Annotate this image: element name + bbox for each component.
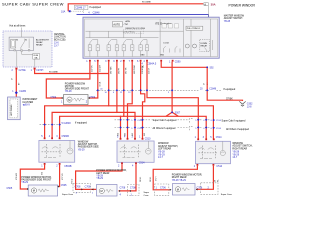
svg-text:10A: 10A [61,10,66,13]
svg-text:C510: C510 [137,128,143,130]
svg-text:A: A [204,2,206,6]
svg-text:M: M [101,189,103,193]
svg-text:518 BK/W: 518 BK/W [142,66,144,74]
svg-text:970 W/R: 970 W/R [16,172,18,180]
svg-text:C505: C505 [7,187,13,190]
svg-text:86: 86 [16,40,18,42]
svg-text:519 GY: 519 GY [149,67,151,74]
svg-text:57: 57 [12,78,14,80]
svg-text:C2280: C2280 [19,91,26,93]
svg-text:Super Cab if equipped: Super Cab if equipped [153,119,177,122]
svg-text:Super Crew: Super Crew [62,193,73,196]
svg-text:If equipped: If equipped [75,121,88,124]
svg-text:57 BK: 57 BK [226,97,233,100]
svg-text:971: 971 [42,172,44,175]
svg-text:S92: S92 [210,67,215,69]
svg-text:960: 960 [125,133,127,136]
svg-text:C584B: C584B [62,135,70,138]
svg-text:YB-29: YB-29 [179,179,186,182]
svg-text:971 Y: 971 Y [156,176,158,181]
svg-text:58 R/L: 58 R/L [140,177,142,182]
svg-text:C514: C514 [216,165,222,168]
svg-text:Hot at all times: Hot at all times [10,25,27,28]
svg-text:515 Y/R: 515 Y/R [92,65,94,72]
svg-text:LOCK: LOCK [164,43,170,45]
svg-text:MASTER WINDOW: MASTER WINDOW [224,14,245,17]
svg-text:Super: Super [144,191,150,194]
svg-text:60-9: 60-9 [25,105,30,107]
svg-text:If equipped: If equipped [90,7,102,9]
svg-text:C584A 5: C584A 5 [147,62,157,65]
svg-text:13-6: 13-6 [54,43,59,45]
svg-text:ADJUST SWITCH: ADJUST SWITCH [224,17,243,20]
svg-text:ACCESSORY: ACCESSORY [36,38,50,41]
svg-text:C708: C708 [120,187,126,190]
svg-text:C514: C514 [139,161,145,164]
svg-text:13-8: 13-8 [247,106,252,108]
svg-text:C2846 17: C2846 17 [75,7,86,10]
svg-text:C584B: C584B [64,165,72,168]
svg-text:AUTO: AUTO [113,24,120,27]
svg-text:C505: C505 [61,184,67,187]
svg-text:YB-28: YB-28 [172,179,179,182]
svg-text:YB-28: YB-28 [65,90,72,93]
svg-text:C2848: C2848 [209,89,216,91]
svg-text:30A: 30A [211,3,216,7]
svg-text:58 R/L: 58 R/L [150,177,152,182]
svg-text:C590: C590 [175,61,181,64]
svg-text:C504: C504 [51,96,57,99]
svg-text:C510: C510 [137,120,143,122]
svg-text:C514: C514 [216,128,222,130]
svg-text:A/DN: A/DN [126,20,131,23]
svg-text:DELAY: DELAY [36,41,43,44]
svg-text:GND: GND [160,55,165,57]
svg-text:BOX (CJB): BOX (CJB) [54,39,66,41]
svg-text:963 T/BK: 963 T/BK [110,66,112,74]
svg-text:961: 961 [118,133,120,136]
svg-text:C708: C708 [85,186,91,189]
svg-text:YB-29: YB-29 [78,148,85,151]
svg-text:13-7: 13-7 [158,156,163,159]
svg-text:M: M [177,188,179,192]
svg-text:C270E: C270E [19,70,26,72]
svg-text:INSTRUMENT: INSTRUMENT [22,99,38,101]
svg-text:JUNCTION: JUNCTION [54,37,66,39]
svg-text:C514: C514 [216,136,222,139]
svg-text:YB-28: YB-28 [224,21,231,23]
svg-text:M: M [33,189,35,193]
svg-text:Super Cab if equipped: Super Cab if equipped [222,119,246,122]
svg-text:SUPER CAB/ SUPER CREW: SUPER CAB/ SUPER CREW [2,1,64,6]
svg-text:All Others if equipped: All Others if equipped [226,128,250,131]
svg-text:85: 85 [25,40,27,42]
svg-text:ACC DELAY: ACC DELAY [10,104,13,116]
svg-text:59 LB: 59 LB [99,81,101,86]
svg-text:971 Y/R: 971 Y/R [62,173,64,180]
svg-text:GND: GND [141,55,146,57]
svg-text:961 T/R: 961 T/R [125,67,127,74]
svg-text:C708: C708 [75,186,81,189]
svg-text:KK LB/BK: KK LB/BK [142,1,152,3]
svg-text:KK LB/BK: KK LB/BK [49,72,59,74]
svg-text:Super Crew: Super Crew [221,193,232,196]
svg-text:972 W: 972 W [72,179,74,184]
svg-text:All Others if equipped: All Others if equipped [153,127,177,130]
svg-text:YB-29: YB-29 [21,181,28,184]
svg-text:G302: G302 [247,103,253,105]
svg-text:13-7: 13-7 [232,156,237,159]
svg-text:M: M [68,98,70,102]
svg-text:C2848: C2848 [93,13,100,15]
svg-text:If equipped: If equipped [223,88,236,91]
svg-text:CLUSTER: CLUSTER [22,102,33,104]
svg-text:S507: S507 [175,112,181,114]
svg-text:RELAY: RELAY [36,44,43,47]
svg-text:POWER WINDOWS: POWER WINDOWS [229,3,256,7]
svg-text:RELAY: RELAY [201,44,208,47]
svg-text:5 C2848: 5 C2848 [62,122,72,125]
svg-text:960 PK/BK: 960 PK/BK [134,64,136,74]
svg-text:514 W/R: 514 W/R [100,64,102,72]
svg-text:C708: C708 [130,187,136,190]
svg-text:58: 58 [214,180,216,182]
svg-text:R/L: R/L [217,179,219,182]
svg-text:963: 963 [132,133,134,136]
svg-text:+VCO*VCO+: +VCO*VCO+ [124,32,135,34]
svg-text:CENTRAL: CENTRAL [54,33,65,36]
svg-text:C270H: C270H [36,70,43,72]
svg-text:Crew: Crew [144,194,149,197]
svg-text:YB-29: YB-29 [96,177,103,180]
svg-text:C510: C510 [145,138,151,141]
svg-text:13-7: 13-7 [54,46,59,48]
svg-text:C504: C504 [90,96,96,99]
svg-text:962: 962 [144,133,146,136]
svg-text:57: 57 [204,83,206,85]
svg-text:PULL TRIN DC: PULL TRIN DC [187,28,201,30]
svg-text:C706: C706 [160,187,166,190]
svg-text:962 PK: 962 PK [119,67,121,74]
